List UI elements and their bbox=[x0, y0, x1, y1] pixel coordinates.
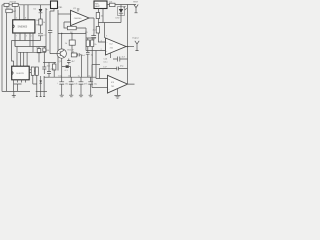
LED D3 bbox=[120, 5, 122, 10]
IC U1 notch bbox=[13, 25, 15, 28]
capacitor C11 bbox=[113, 57, 128, 62]
jack J1 bbox=[135, 41, 139, 51]
op-amp U5 bbox=[108, 75, 128, 93]
wire R3 top stub bbox=[29, 70, 35, 73]
wire box E drop 2 bbox=[98, 9, 103, 27]
LED D3 arrows bbox=[124, 6, 127, 10]
resistor R4 bbox=[35, 67, 38, 75]
wire IC1 pin14 drop bbox=[14, 6, 16, 19]
wire opamp3 in- bbox=[92, 87, 108, 89]
capacitor C14 bbox=[86, 52, 90, 77]
svg-text:Vs: Vs bbox=[36, 25, 38, 27]
capacitor C3 bbox=[91, 34, 96, 41]
resistor R1 bbox=[12, 3, 18, 6]
wire stub d3 bbox=[43, 76, 45, 97]
wire R12 stubs bbox=[87, 38, 89, 52]
wire R13 stubs bbox=[86, 38, 96, 77]
svg-text:Output: Output bbox=[132, 36, 139, 39]
ground G1 bbox=[12, 91, 16, 97]
svg-text:10k: 10k bbox=[71, 51, 74, 53]
capacitor C17 bbox=[117, 67, 119, 71]
wire stub to R2 bbox=[6, 6, 8, 9]
LED D3 enclosure box bbox=[118, 7, 125, 16]
wire bottom rail left bbox=[2, 90, 30, 92]
box XT1 top right bbox=[94, 1, 107, 9]
ground G2 bbox=[114, 95, 120, 98]
IC U2 pin stubs bottom bbox=[14, 80, 26, 92]
capacitor C12 bbox=[77, 53, 82, 77]
svg-text:2: 2 bbox=[31, 35, 32, 37]
svg-text:1k: 1k bbox=[65, 43, 67, 45]
wire feedback top opamp3 bbox=[99, 68, 127, 70]
IC U2 bbox=[12, 66, 30, 80]
op-amp U4 bbox=[106, 38, 127, 55]
svg-text:LED: LED bbox=[116, 18, 120, 20]
wire ladder drop d bbox=[23, 52, 25, 66]
svg-text:SL6270: SL6270 bbox=[16, 73, 24, 75]
resistor R2 bbox=[6, 9, 12, 13]
junction dots rail bbox=[61, 33, 62, 34]
diode D1 vertical chain bbox=[40, 5, 42, 9]
capacitor C5 small bbox=[42, 47, 46, 75]
resistor R13 bbox=[91, 40, 94, 47]
wire box E drop 1 bbox=[97, 9, 99, 13]
svg-text:7: 7 bbox=[106, 36, 107, 38]
wire bottom rail mid bbox=[36, 90, 47, 92]
svg-text:0.1u: 0.1u bbox=[104, 61, 108, 63]
wire ladder h1 bbox=[12, 33, 41, 41]
fuse F1 bbox=[4, 3, 9, 6]
wire rail left join bbox=[44, 76, 49, 78]
wire x58 long vertical bbox=[57, 10, 59, 71]
svg-text:10u: 10u bbox=[68, 75, 71, 77]
wire drop x86 bbox=[76, 28, 86, 51]
svg-text:250mA: 250mA bbox=[9, 1, 16, 4]
wire x96 long bbox=[92, 51, 96, 88]
svg-text:TEST: TEST bbox=[133, 1, 139, 3]
resistor R11 bbox=[96, 27, 99, 34]
svg-text:3: 3 bbox=[101, 41, 102, 43]
electrolytic C9 bbox=[88, 77, 93, 97]
resistor R6 below opamp1 bbox=[67, 26, 76, 30]
svg-text:4k7: 4k7 bbox=[72, 61, 75, 63]
wire opamp1 input bottom bbox=[64, 22, 71, 28]
wire ladder drop b2 bbox=[16, 47, 18, 67]
capacitor C4 electrolytic blob bbox=[62, 67, 71, 78]
IC U1 pin stubs bottom bbox=[15, 33, 20, 47]
wire SW1 drop bbox=[50, 9, 54, 31]
junction dot out bbox=[127, 46, 129, 48]
resistor R3 bbox=[31, 67, 34, 75]
wire y64.5 bbox=[92, 64, 100, 66]
wire opamp1 input top bbox=[58, 13, 71, 15]
wire U5 gnd stub bbox=[117, 89, 119, 96]
transistor Q1 bbox=[57, 49, 66, 58]
svg-text:7: 7 bbox=[16, 35, 17, 37]
capacitor C13 bbox=[67, 59, 71, 65]
capacitor C2 bbox=[48, 31, 52, 54]
svg-text:3: 3 bbox=[26, 35, 27, 37]
svg-text:SAB0600: SAB0600 bbox=[18, 26, 28, 29]
wire IC1 pin13 drop bbox=[19, 6, 21, 19]
wire ladder h3 bbox=[18, 33, 46, 52]
resistor R9 bbox=[53, 64, 56, 70]
resistor R5 bbox=[39, 19, 42, 25]
svg-text:1k: 1k bbox=[43, 22, 45, 24]
svg-text:1u: 1u bbox=[78, 75, 80, 77]
resistor R14 bbox=[110, 3, 116, 6]
wire left bus vertical bbox=[1, 5, 3, 92]
resistor R7 bbox=[69, 40, 75, 45]
terminal TP1 bbox=[134, 5, 138, 13]
svg-text:1M: 1M bbox=[46, 50, 49, 52]
resistor R12 bbox=[86, 40, 89, 47]
wire opamp3 in+ bbox=[96, 69, 108, 79]
wire stub d1 bbox=[33, 75, 38, 96]
resistor R10 bbox=[96, 13, 99, 19]
wire R9 stubs bbox=[53, 62, 55, 77]
IC U2 notch bbox=[12, 72, 13, 75]
wire left bus 2 vertical bbox=[6, 13, 8, 92]
wire drop x72 bbox=[71, 34, 73, 41]
wire IC1 pin11 drop bbox=[27, 5, 29, 20]
box SW1 top center bbox=[51, 1, 58, 9]
wire D3 to bus bbox=[98, 22, 121, 24]
wire U4 output bbox=[126, 46, 134, 48]
resistor R16 bbox=[43, 48, 46, 52]
electrolytic C6 bbox=[59, 77, 64, 97]
wire mid vertical x46 bbox=[45, 8, 47, 52]
svg-text:AMP: AMP bbox=[95, 5, 100, 8]
wire ladder left drop b bbox=[14, 41, 16, 47]
svg-text:47k: 47k bbox=[36, 47, 39, 49]
wire feedback vertical x127.5 bbox=[127, 5, 129, 69]
wire mid h rail y33.5 bbox=[58, 33, 86, 35]
electrolytic C8 bbox=[79, 77, 84, 97]
wire R15 stubs bbox=[38, 47, 40, 63]
wire R5 down bbox=[40, 25, 42, 33]
wire U2 bottom tie bbox=[14, 84, 22, 91]
wire stub d2 bbox=[40, 80, 42, 97]
svg-text:MIC: MIC bbox=[95, 3, 99, 5]
svg-text:10u: 10u bbox=[58, 75, 61, 77]
wire y62.4 tie bbox=[43, 61, 56, 63]
wire opamp1 output bbox=[89, 18, 94, 34]
diode D4 bbox=[39, 81, 42, 84]
wire R7 down bbox=[71, 45, 73, 53]
wire x104 drop bbox=[104, 23, 106, 39]
electrolytic C7 bbox=[69, 77, 74, 97]
svg-text:1k: 1k bbox=[94, 44, 96, 46]
resistor R8 right of Q1 bbox=[71, 53, 77, 57]
wire ladder left drop a bbox=[12, 41, 14, 67]
wire h y50.5 bbox=[86, 50, 106, 52]
wire U5 output bbox=[128, 69, 135, 85]
svg-text:+10u: +10u bbox=[50, 69, 55, 71]
op-amp U3 bbox=[71, 10, 90, 25]
svg-text:CA3140: CA3140 bbox=[74, 17, 82, 20]
wire R11 down to opamp2 bbox=[98, 33, 105, 42]
svg-text:10k: 10k bbox=[109, 2, 112, 4]
capacitor C10 left column bbox=[47, 62, 51, 77]
wire ladder drop c bbox=[19, 52, 21, 66]
wire IC1 pin12 drop bbox=[23, 5, 25, 20]
wire ladder h2 bbox=[15, 33, 46, 47]
wire top rail left bbox=[2, 4, 51, 6]
IC U1 bbox=[13, 20, 35, 33]
svg-text:7: 7 bbox=[79, 9, 80, 11]
resistor R15 bbox=[37, 49, 41, 53]
capacitor C1 bbox=[38, 34, 43, 41]
wire low mid rail y77.2 bbox=[49, 76, 96, 78]
svg-text:10u: 10u bbox=[94, 83, 97, 85]
wire ladder drop e bbox=[26, 52, 28, 66]
wire top right rail bbox=[107, 4, 136, 6]
